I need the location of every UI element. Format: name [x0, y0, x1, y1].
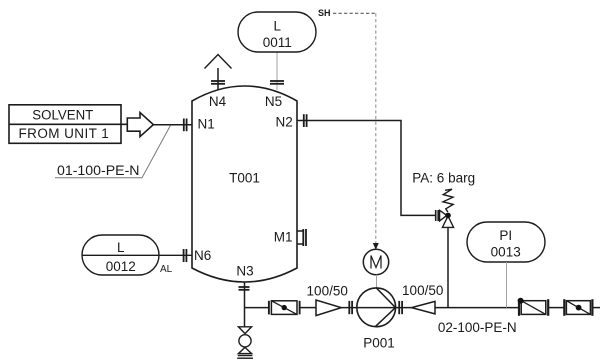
svg-text:PA: 6 barg: PA: 6 barg	[412, 171, 475, 186]
svg-text:N4: N4	[209, 94, 227, 109]
svg-text:0013: 0013	[491, 245, 521, 260]
svg-text:100/50: 100/50	[402, 283, 443, 298]
svg-text:02-100-PE-N: 02-100-PE-N	[438, 320, 517, 335]
svg-text:T001: T001	[229, 170, 260, 185]
svg-text:0012: 0012	[106, 259, 136, 274]
svg-text:M1: M1	[274, 229, 293, 244]
svg-text:L: L	[117, 240, 125, 255]
svg-text:PI: PI	[499, 228, 512, 243]
svg-text:01-100-PE-N: 01-100-PE-N	[57, 163, 140, 178]
svg-text:SH: SH	[318, 8, 331, 18]
svg-text:N1: N1	[198, 117, 215, 132]
svg-text:FROM UNIT 1: FROM UNIT 1	[19, 126, 109, 141]
svg-text:P001: P001	[363, 336, 395, 351]
svg-text:N2: N2	[276, 114, 293, 129]
svg-text:L: L	[274, 18, 282, 33]
svg-text:100/50: 100/50	[307, 283, 348, 298]
svg-text:N3: N3	[236, 264, 253, 279]
svg-text:N5: N5	[265, 94, 282, 109]
svg-text:AL: AL	[160, 264, 173, 275]
svg-text:SOLVENT: SOLVENT	[32, 108, 93, 123]
svg-text:N6: N6	[194, 248, 211, 263]
svg-text:0011: 0011	[263, 35, 292, 50]
